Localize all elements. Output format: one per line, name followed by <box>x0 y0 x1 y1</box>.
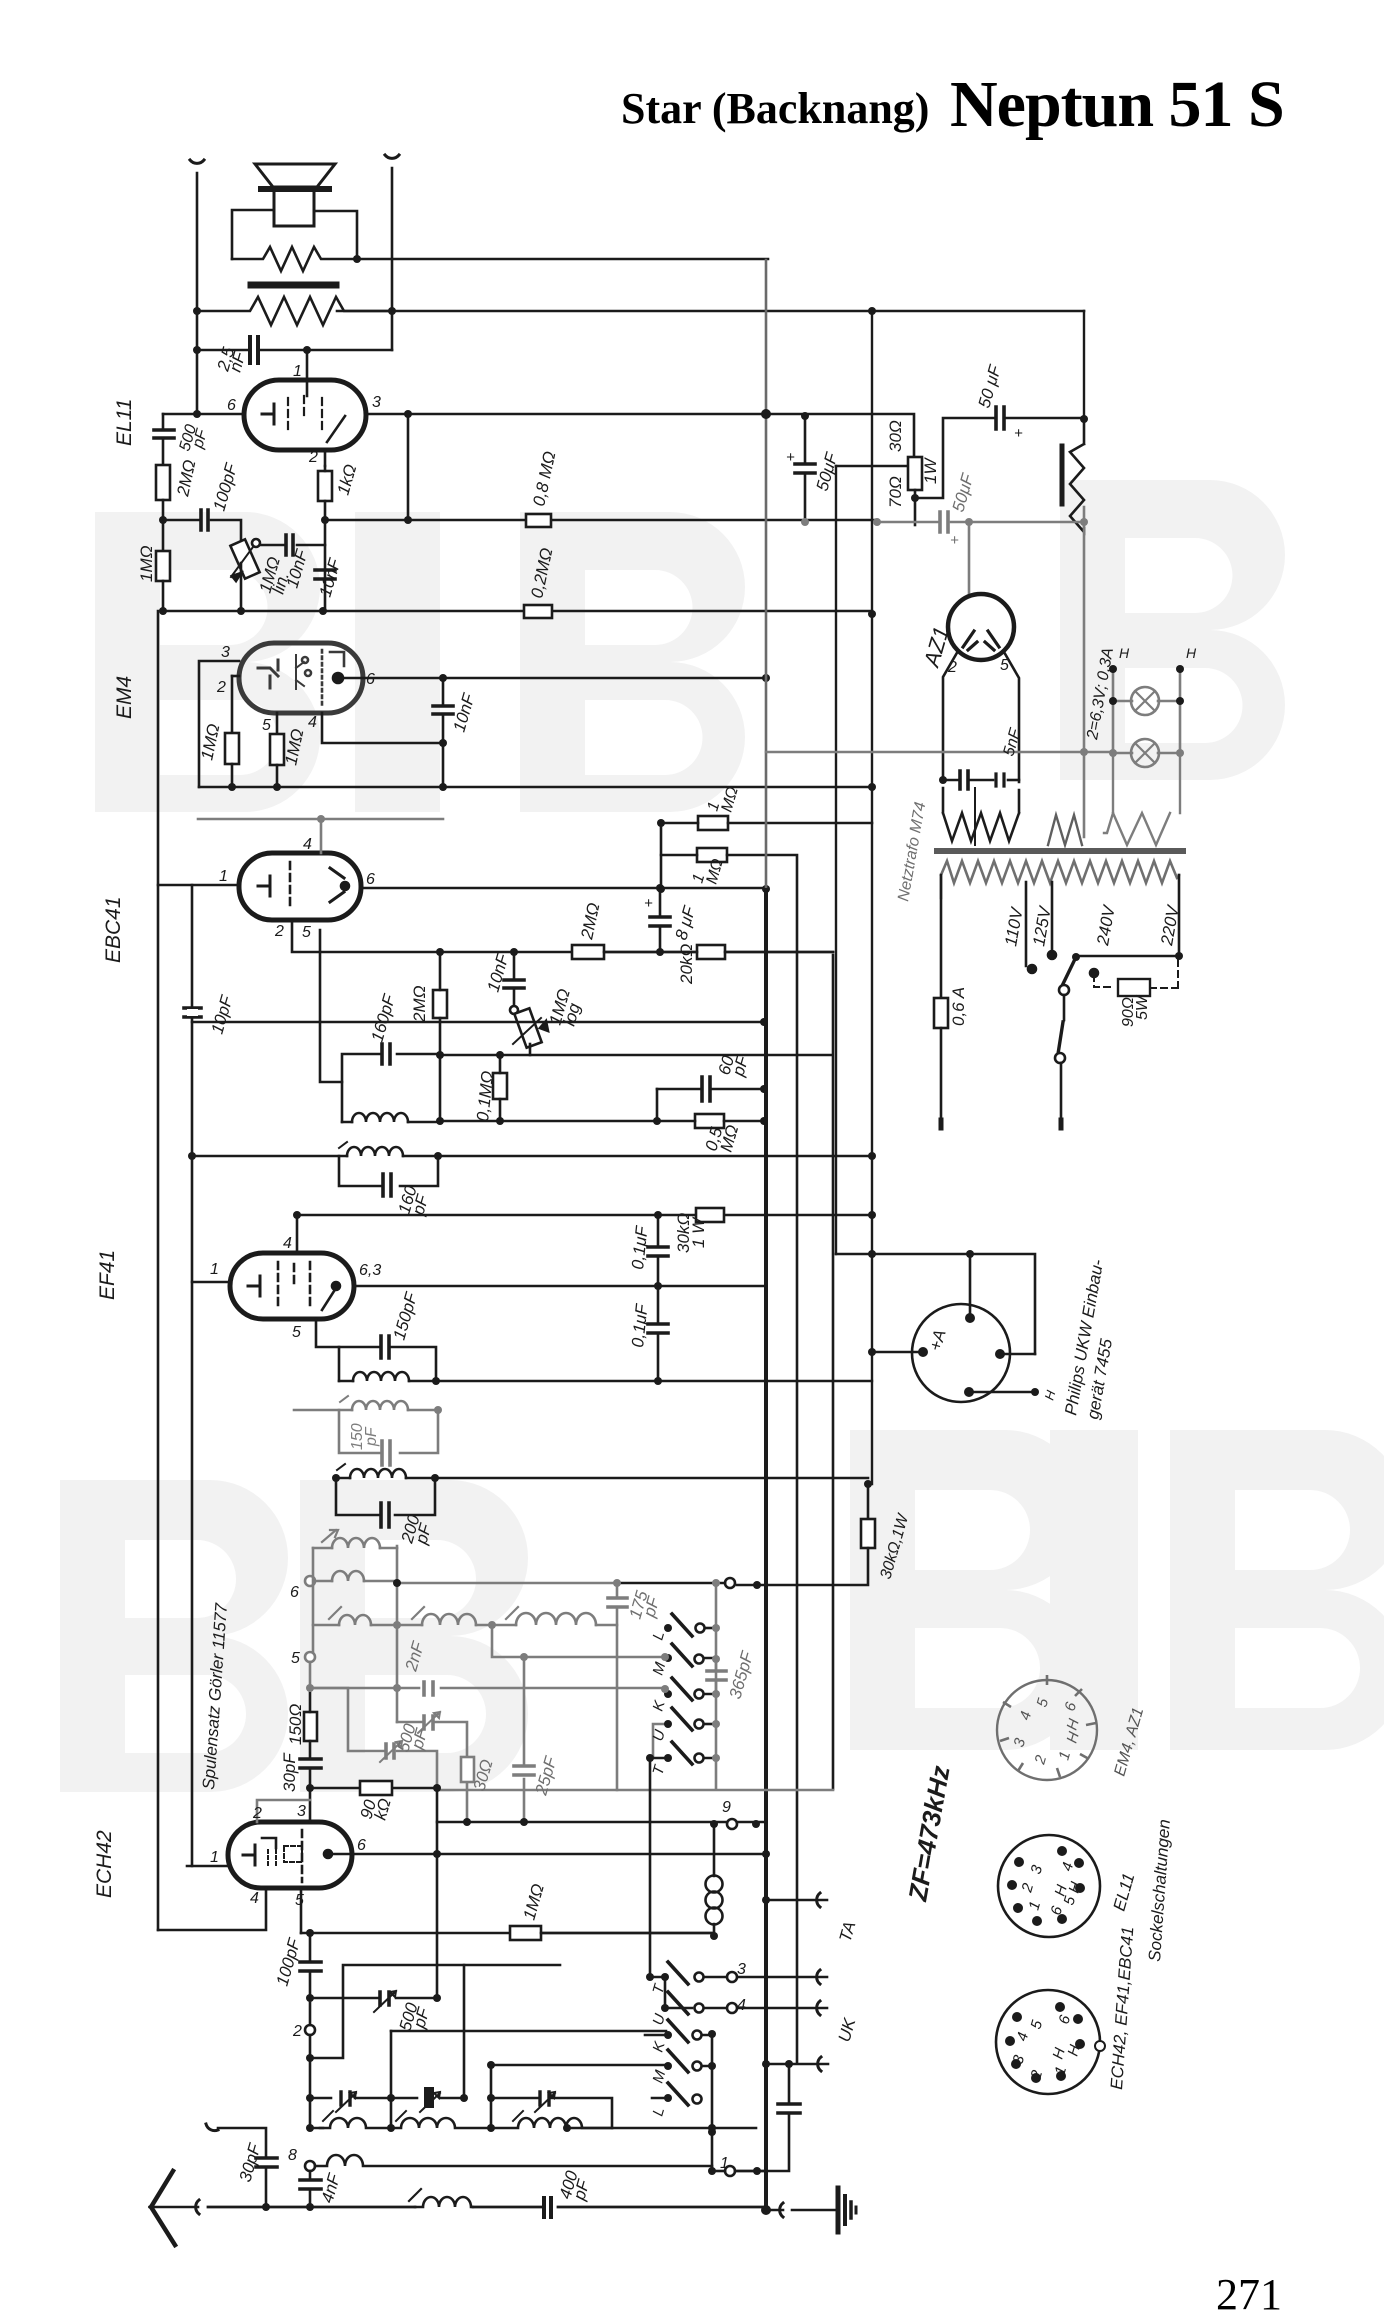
capacitor 10nF coupling <box>286 535 293 555</box>
capacitor 150pF IF3 <box>381 1336 389 1358</box>
capacitor 50uF screen <box>804 416 807 522</box>
IF5 tank top: coil black <box>350 1469 406 1478</box>
capacitor 100pF <box>201 510 208 530</box>
svg-text:100pF: 100pF <box>210 460 242 513</box>
EF41 internals <box>248 1276 260 1296</box>
svg-text:1: 1 <box>293 363 302 380</box>
svg-text:1: 1 <box>210 1261 219 1278</box>
svg-text:UK: UK <box>835 2016 860 2045</box>
wire: EBC41 top gray line <box>198 818 443 821</box>
svg-text:4: 4 <box>1014 2030 1033 2043</box>
wire: AZ1 cathode drop <box>968 522 971 597</box>
svg-text:1MΩ: 1MΩ <box>137 545 156 582</box>
svg-text:1: 1 <box>720 2155 729 2172</box>
wire: line y1822 <box>437 1821 766 1824</box>
coil 10 <box>516 1613 596 1625</box>
svg-text:6: 6 <box>366 671 375 688</box>
wire: pot to 10nF <box>260 544 325 547</box>
junction dots center <box>436 884 768 1125</box>
resistor 0,8MOhm <box>526 514 551 527</box>
wire: y466 line <box>836 465 907 468</box>
svg-text:EF41: EF41 <box>96 1250 119 1300</box>
svg-text:5: 5 <box>1028 2018 1047 2031</box>
wire: line y1022 <box>192 1021 764 1024</box>
capacitor 25pF <box>514 1766 534 1775</box>
wire: row y2171 <box>712 2170 725 2173</box>
wire: left speaker vertical <box>196 173 199 414</box>
IF1 tank top <box>342 1054 440 1122</box>
capacitor 30pF <box>300 1759 321 1768</box>
circle UKW <box>912 1304 1010 1402</box>
svg-text:0,1μF: 0,1μF <box>628 1224 652 1271</box>
IF2 tank: coil <box>347 1147 403 1156</box>
svg-text:5: 5 <box>295 1892 304 1909</box>
svg-text:+A: +A <box>926 1327 950 1353</box>
taps <box>1026 882 1052 966</box>
svg-text:3: 3 <box>372 394 381 411</box>
svg-text:2: 2 <box>308 449 318 466</box>
svg-text:5W: 5W <box>1134 994 1151 1020</box>
transformer core <box>937 848 1183 854</box>
speaker horn <box>255 164 335 187</box>
switch labels upper bank <box>650 1629 670 2118</box>
tube AZ1 <box>948 594 1014 660</box>
IF3 tank top: 150pF <box>339 1347 436 1381</box>
svg-text:Neptun 51 S: Neptun 51 S <box>950 68 1284 141</box>
wire: NFB line y1055 <box>440 955 833 1789</box>
svg-text:50μF: 50μF <box>813 449 842 493</box>
coil D <box>315 2155 712 2166</box>
svg-text:50 μF: 50 μF <box>975 362 1006 410</box>
ground symbol <box>836 2188 841 2232</box>
capacitor 400pF <box>544 2198 551 2217</box>
terminal hook left top <box>190 160 204 163</box>
junction dots left block <box>159 255 876 618</box>
wire: pin1 drop <box>306 350 309 378</box>
svg-text:5: 5 <box>292 1324 301 1341</box>
svg-text:2MΩ: 2MΩ <box>410 985 429 1023</box>
svg-text:1 W: 1 W <box>689 1216 708 1248</box>
terminal 8 + 4nF <box>305 2161 315 2171</box>
svg-text:2: 2 <box>1031 1753 1050 1767</box>
IF5 bracket 200pF <box>336 1478 435 1515</box>
resistor 0,2MOhm <box>524 605 552 618</box>
junction dots IF strip <box>188 1152 876 1488</box>
svg-text:8: 8 <box>288 2147 297 2164</box>
wire: 30k rail link <box>867 1484 870 1519</box>
terminal 7 <box>725 1578 735 1588</box>
trimmer 3 <box>491 2098 612 2128</box>
svg-text:EBC41: EBC41 <box>102 896 125 963</box>
svg-text:4: 4 <box>308 714 317 731</box>
svg-text:1MΩ: 1MΩ <box>520 1882 548 1922</box>
lamp 1 <box>1131 687 1159 715</box>
capacitor 10pF <box>184 1008 201 1017</box>
resistor 1MOhm pin2 <box>225 733 239 764</box>
wire: IF2 line y1156 <box>192 1155 872 1158</box>
wire: y2031 / y2062 rows <box>391 2031 666 2128</box>
wire: ECH42 pin6 line <box>328 1853 766 1856</box>
capacitor 4nF <box>778 2104 800 2113</box>
svg-text:30pF: 30pF <box>236 2140 265 2184</box>
svg-text:50μF: 50μF <box>949 470 978 514</box>
wire: field coil to rail <box>357 258 768 261</box>
svg-text:6: 6 <box>227 397 236 414</box>
svg-text:H: H <box>1186 645 1197 661</box>
svg-text:4: 4 <box>250 1890 259 1907</box>
wire: y2128 trimmer row <box>310 2098 323 2128</box>
wire: y1121 line <box>440 1089 657 1121</box>
wire: 500pF trimmer line <box>310 1997 437 2000</box>
wire: EBC41 pin6 line <box>361 887 766 890</box>
wire: EL11 pin6 line <box>163 413 244 416</box>
wire: bottom line <box>208 2206 766 2209</box>
wire: TA row <box>766 1899 827 1902</box>
capacitor 60pF <box>702 1077 710 1101</box>
zigzag dropper <box>1070 419 1084 532</box>
svg-text:Netztrafo M74: Netztrafo M74 <box>895 801 929 903</box>
capacitor 10nF EM4 <box>433 706 453 714</box>
wire: ECH42 pin2 <box>257 1800 310 1822</box>
capacitor 5nF a <box>960 771 968 789</box>
capacitor 0,1uF lower <box>648 1324 668 1333</box>
wire: right speaker vertical <box>391 168 394 350</box>
hook 30pF <box>206 2124 218 2131</box>
K row <box>645 2034 714 2037</box>
capacitor 500pF grid <box>154 430 174 438</box>
wire: gray x716 <box>437 1582 833 1790</box>
svg-text:0,6 A: 0,6 A <box>949 987 968 1026</box>
svg-text:2: 2 <box>1027 2068 1046 2082</box>
svg-text:1kΩ: 1kΩ <box>334 462 361 497</box>
svg-text:4: 4 <box>737 1997 746 2014</box>
resistor 1MOhm osc <box>510 1926 541 1940</box>
svg-text:EM4: EM4 <box>113 676 136 719</box>
wire: ECH42 pin3 grid <box>309 1788 312 1822</box>
coil B <box>391 2118 491 2128</box>
wire: gray bus y522 <box>877 521 1084 524</box>
svg-text:H: H <box>1119 645 1130 661</box>
switch blade power <box>1062 957 1076 986</box>
svg-text:2: 2 <box>216 679 226 696</box>
trimmer 500pF osc2 <box>386 1744 394 1758</box>
svg-text:+: + <box>1014 425 1023 442</box>
wire: pin3 drop x408 <box>407 414 410 520</box>
wire: EF41 pin5 <box>316 1319 339 1347</box>
svg-text:1: 1 <box>1026 1899 1045 1912</box>
svg-text:5: 5 <box>302 924 311 941</box>
socket EM4 AZ1 <box>997 1680 1097 1780</box>
svg-text:1: 1 <box>219 868 228 885</box>
svg-text:6: 6 <box>357 1837 366 1854</box>
wire: 2nF line <box>397 1687 665 1690</box>
svg-text:H: H <box>1041 1388 1058 1402</box>
svg-text:70Ω: 70Ω <box>886 476 905 508</box>
tube EM4 <box>239 643 363 713</box>
svg-text:2: 2 <box>292 2023 302 2040</box>
transformer core bar <box>251 282 336 289</box>
svg-text:110V: 110V <box>1001 905 1027 948</box>
wire: line y1478 <box>336 1477 868 1480</box>
watermark BIB ghost letters <box>60 480 1384 1792</box>
dots osc area <box>306 1579 793 2175</box>
svg-text:pF: pF <box>363 1426 380 1447</box>
svg-text:K: K <box>650 2039 669 2054</box>
capacitor 10nF cathode <box>315 570 335 579</box>
wire: cathode 0.8M line <box>325 519 877 522</box>
svg-text:L: L <box>650 2105 669 2118</box>
capacitor 100pF <box>300 1962 321 1971</box>
wire: pin5 line y1933 <box>301 1932 714 1935</box>
svg-text:365pF: 365pF <box>726 1648 758 1701</box>
wire: ECH42 pin1 <box>187 1865 228 1868</box>
svg-text:2: 2 <box>252 1805 262 1822</box>
terminal 1 <box>725 2166 735 2176</box>
wire: EBC41 pin2/5 drop <box>292 920 833 952</box>
coil IF3 <box>353 1372 409 1381</box>
wire: osc line y1583 <box>397 1582 617 1585</box>
svg-text:Sockelschaltungen: Sockelschaltungen <box>1145 1819 1174 1963</box>
wire: x658 cap chain <box>657 1215 660 1381</box>
svg-text:kΩ: kΩ <box>371 1796 395 1822</box>
wire: x437 drop <box>436 1788 439 1998</box>
wire: EF41 pin4 <box>296 1215 299 1253</box>
svg-text:+: + <box>644 895 653 912</box>
svg-text:10pF: 10pF <box>208 992 237 1036</box>
UK row <box>766 2063 828 2066</box>
band switch upper bank <box>650 1614 717 1764</box>
winding lamps <box>1104 753 1180 845</box>
capacitor 200pF <box>381 1503 389 1527</box>
IF2 bracket to 160pF <box>339 1156 438 1186</box>
resistor 1MOhm pin5 <box>270 734 284 765</box>
terminal hook right top <box>385 155 399 158</box>
svg-text:8 μF: 8 μF <box>672 903 700 942</box>
wire: grid bus long <box>163 610 872 613</box>
winding middle <box>1048 815 1082 845</box>
svg-text:6: 6 <box>290 1584 299 1601</box>
output transformer primary zigzag <box>197 297 393 325</box>
wire: EL11 pin3 line <box>366 414 914 457</box>
svg-text:K: K <box>650 1698 669 1713</box>
svg-text:U: U <box>650 2012 669 2027</box>
svg-text:2: 2 <box>947 659 957 676</box>
resistor 30kOhm 1W vert <box>861 1519 875 1548</box>
coil 9 <box>422 1614 476 1625</box>
wire: main rail x766 <box>765 260 768 890</box>
resistor 2MOhm horizontal <box>572 945 604 959</box>
tube ECH42 <box>228 1822 352 1888</box>
wire: 220V right leg <box>1076 875 1179 956</box>
wire: y1254 line <box>836 1254 1035 1354</box>
dots power <box>761 409 1184 961</box>
wire: terminal 9 <box>727 1819 737 1829</box>
svg-text:4nF: 4nF <box>318 2170 345 2205</box>
svg-text:1W: 1W <box>921 457 940 484</box>
svg-text:+: + <box>786 449 795 466</box>
svg-text:ZF=473kHz: ZF=473kHz <box>902 1763 955 1904</box>
svg-text:271: 271 <box>1216 2270 1282 2312</box>
wire: 1M lower line <box>661 855 797 2063</box>
capacitor 160pF IF1 <box>382 1044 390 1064</box>
resistor 30kOhm 1W <box>696 1208 724 1222</box>
coil E ant <box>415 2197 473 2207</box>
potentiometer 1MOhm log <box>510 1006 518 1014</box>
svg-text:EL11: EL11 <box>113 399 136 447</box>
svg-text:6: 6 <box>366 871 375 888</box>
resistor 1MOhm AVC upper <box>698 816 728 830</box>
resistor 1kOhm cathode <box>318 471 332 501</box>
trimmer 2 (filled) <box>391 2097 464 2100</box>
capacitor 30pF <box>256 2158 277 2167</box>
wire: anode drop to IF1 <box>320 930 342 1082</box>
svg-text:6: 6 <box>1048 1904 1067 1917</box>
wire: 20k line <box>604 951 833 954</box>
IF4 tank (gray): coil <box>294 1396 438 1465</box>
wire: x665 x650 stubs <box>650 1758 665 2008</box>
capacitor 50uF top <box>996 407 1004 429</box>
wire: grid cap 100pF line <box>163 520 241 542</box>
wire: EM4 bottom bus <box>199 786 872 789</box>
svg-text:TA: TA <box>836 1919 860 1944</box>
svg-text:4: 4 <box>283 1235 292 1252</box>
svg-text:2: 2 <box>1018 1881 1037 1895</box>
capacitor 5nF b <box>996 774 1004 786</box>
terminal 3 row <box>651 1976 827 1979</box>
240V dashed resistor <box>1094 975 1114 987</box>
wire: EBC41 pin4 (gray) <box>320 819 323 853</box>
dots bottom <box>262 2094 771 2215</box>
wire: EM4 pin4 <box>322 713 443 743</box>
resistor 2MOhm vertical <box>433 990 447 1018</box>
wire: line y1215 <box>297 1214 872 1217</box>
svg-text:3: 3 <box>1028 1863 1047 1876</box>
wire: EF41 6,3 line <box>354 1285 764 1288</box>
wire: y2062 line <box>309 2062 312 2098</box>
resistor 30 Ohm <box>461 1757 474 1782</box>
svg-text:ECH42: ECH42 <box>93 1830 116 1898</box>
svg-text:3: 3 <box>297 1803 306 1820</box>
wire: y1688 branch <box>310 1687 397 1690</box>
svg-text:3: 3 <box>737 1961 746 1978</box>
capacitor 0,1uF upper <box>648 1247 668 1256</box>
svg-text:9: 9 <box>722 1799 731 1816</box>
svg-text:5: 5 <box>262 717 271 734</box>
wire: x712 <box>711 2034 714 2171</box>
wire: rail x872 <box>871 311 873 1484</box>
svg-text:0,1μF: 0,1μF <box>628 1302 652 1349</box>
wire: AZ1 plate legs <box>943 651 1019 782</box>
resistor 0,1MOhm vertical <box>493 1073 507 1099</box>
svg-text:M: M <box>650 2068 670 2085</box>
svg-text:5: 5 <box>1000 657 1009 674</box>
svg-text:+: + <box>950 532 959 549</box>
svg-text:6,3: 6,3 <box>359 1262 381 1279</box>
svg-text:M: M <box>650 1660 670 1677</box>
wire: rail x836 <box>835 466 837 1254</box>
wire: EM4 pin5 <box>276 713 279 734</box>
svg-text:1MΩ: 1MΩ <box>197 722 223 762</box>
wire: 90k line <box>310 1787 437 1790</box>
svg-text:1: 1 <box>210 1849 219 1866</box>
wire: EF41 pin1 <box>192 1281 230 1284</box>
svg-text:3: 3 <box>221 644 230 661</box>
junction dots EM4/EBC41 <box>228 674 876 893</box>
wire: ECH42 pin5 <box>300 1888 303 1933</box>
coil IF1 <box>352 1113 408 1122</box>
wire: rail x1084 top <box>1083 311 1085 419</box>
wire: EM4 pin6 line <box>338 677 767 680</box>
capacitor 175pF <box>608 1598 627 1607</box>
svg-text:2MΩ: 2MΩ <box>173 458 199 499</box>
svg-text:240V: 240V <box>1093 903 1119 948</box>
svg-text:2: 2 <box>274 923 284 940</box>
wire: cathode 2.5nF line <box>197 349 392 352</box>
wire: left rail x192 <box>191 885 194 1866</box>
resistor 150 Ohm <box>304 1712 317 1741</box>
svg-text:2MΩ: 2MΩ <box>577 901 603 942</box>
coil C <box>491 2118 612 2128</box>
svg-text:150pF: 150pF <box>390 1289 422 1342</box>
capacitor 10nF volume <box>504 980 524 988</box>
svg-text:25pF: 25pF <box>531 1753 561 1798</box>
svg-text:EL11: EL11 <box>1110 1871 1139 1913</box>
EL11 internals <box>262 404 274 424</box>
svg-text:30pF: 30pF <box>280 1752 299 1792</box>
wire: x524 drop <box>523 1657 526 1822</box>
svg-text:6: 6 <box>1056 2013 1075 2026</box>
wire: gray bus y752 <box>766 751 1113 754</box>
resistor 2MOhm vertical <box>156 465 170 500</box>
antenna symbol <box>151 2171 175 2245</box>
coil 8 <box>339 1615 371 1625</box>
coil osc top (black) <box>335 1477 338 1480</box>
socket ECH42 EF41 EBC41 <box>996 1990 1105 2094</box>
potentiometer 1MOhm lin <box>230 539 259 578</box>
branch x348 <box>310 1688 385 1751</box>
wire: line y1381 <box>436 1380 872 1382</box>
svg-text:20kΩ: 20kΩ <box>677 944 696 985</box>
resistor 1MOhm AVC lower <box>697 848 727 862</box>
winding HV (AZ1) <box>943 788 1019 841</box>
tube EF41 <box>230 1253 354 1319</box>
M row <box>491 2065 714 2066</box>
ECH42 internals <box>243 1845 255 1865</box>
svg-text:T: T <box>650 1762 669 1777</box>
speaker frame bracket <box>232 210 357 259</box>
svg-text:30Ω: 30Ω <box>886 420 905 452</box>
primary winding <box>941 861 1179 898</box>
wire: left rail x158 <box>157 611 160 1930</box>
svg-text:150Ω: 150Ω <box>286 1704 305 1745</box>
capacitor 365pF <box>707 1671 726 1680</box>
svg-text:ECH42, EF41,EBC41: ECH42, EF41,EBC41 <box>1107 1926 1137 2090</box>
capacitor 8uF <box>650 917 670 926</box>
wire: ground stub <box>766 2209 783 2212</box>
wire: EM4 pin2 <box>232 675 239 678</box>
lamp 2 <box>1131 739 1159 767</box>
wire: to 50uF top <box>915 418 1084 498</box>
resistor 30/70 Ohm <box>908 457 922 490</box>
svg-text:1: 1 <box>1052 2064 1071 2077</box>
wire: EBC41 pin1 line <box>158 884 239 887</box>
coil pair gray: arrow coil <box>305 1530 665 1822</box>
svg-text:10nF: 10nF <box>450 690 479 734</box>
svg-text:10nF: 10nF <box>316 555 345 599</box>
terminal 2 <box>305 2025 315 2035</box>
coil A <box>320 2118 391 2128</box>
capacitor 50uF gray <box>940 512 948 532</box>
